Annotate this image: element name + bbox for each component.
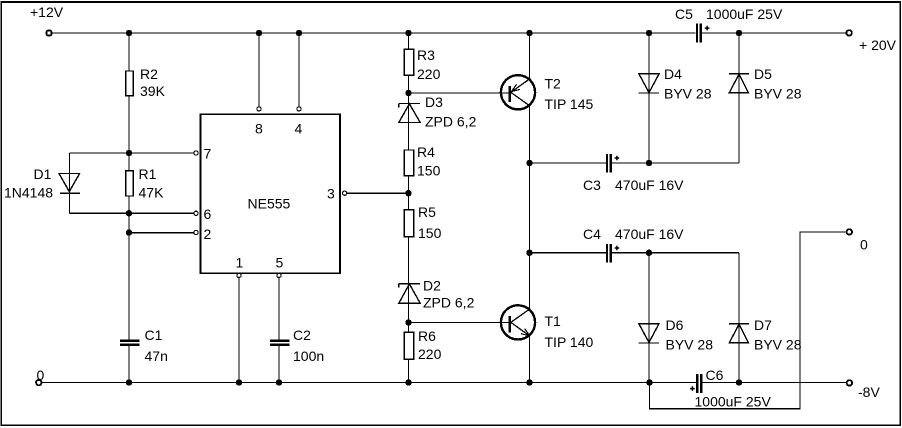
svg-text:150: 150	[417, 163, 441, 179]
diode D6	[639, 324, 659, 343]
pin 4 circle	[297, 107, 301, 111]
junction bottom rail x739	[736, 379, 742, 385]
diode D3 zener	[399, 104, 420, 123]
svg-text:47n: 47n	[145, 348, 168, 364]
terminal +20V	[846, 30, 851, 35]
wire 0-output branch	[650, 232, 846, 409]
wire D4 column	[648, 33, 650, 163]
svg-text:470uF 16V: 470uF 16V	[615, 226, 684, 242]
transistor T2 circle	[501, 75, 535, 109]
junction node pin3/R4/R5	[405, 190, 411, 196]
svg-text:ZPD 6,2: ZPD 6,2	[423, 295, 475, 311]
svg-text:D1: D1	[34, 166, 52, 182]
transistor T2 arrow (PNP)	[511, 84, 520, 91]
svg-text:+ 20V: + 20V	[859, 37, 897, 53]
transistor T1 circle	[501, 305, 535, 339]
svg-text:R4: R4	[417, 144, 435, 160]
wire T2 base row	[409, 92, 510, 94]
svg-text:C4: C4	[583, 226, 601, 242]
svg-text:R6: R6	[418, 328, 436, 344]
diode D5	[729, 74, 749, 93]
pin 2 circle	[194, 231, 198, 235]
svg-text:39K: 39K	[140, 83, 166, 99]
pin 8 circle	[257, 107, 261, 111]
resistor R3	[404, 49, 413, 75]
svg-text:3: 3	[327, 186, 335, 202]
junction bottom rail x529.5	[526, 379, 532, 385]
svg-text:1000uF 25V: 1000uF 25V	[706, 6, 783, 22]
pin 1 circle	[237, 273, 241, 277]
terminal 0 bottom left	[36, 380, 41, 385]
capacitor C6 plates	[697, 374, 701, 393]
wire pin8 column	[258, 33, 260, 107]
svg-text:100n: 100n	[293, 348, 324, 364]
transistor T1 arrow (NPN)	[521, 329, 530, 336]
wire D7 column	[738, 253, 740, 383]
junction pin6 row	[126, 210, 132, 216]
wire pin1 column	[238, 278, 240, 383]
junction bottom rail x649.5	[646, 379, 652, 385]
capacitor C1 plates	[120, 341, 139, 345]
svg-text:220: 220	[418, 346, 442, 362]
wire D1 branch vertical	[69, 153, 71, 213]
junction pin7 row	[126, 150, 132, 156]
junction pin2 row	[126, 229, 132, 235]
svg-text:D3: D3	[425, 94, 443, 110]
svg-text:R5: R5	[418, 204, 436, 220]
svg-text:R3: R3	[417, 47, 435, 63]
wire pin2 row	[129, 232, 194, 234]
op-amp/timer U1 NE555 box	[201, 114, 341, 273]
pin 3 circle	[343, 191, 347, 195]
svg-text:0: 0	[860, 237, 868, 253]
svg-text:1N4148: 1N4148	[4, 185, 53, 201]
svg-text:-8V: -8V	[858, 384, 880, 400]
terminal +12V	[46, 30, 51, 35]
svg-text:R2: R2	[140, 66, 158, 82]
resistor R4	[404, 150, 413, 176]
wire T1 base row	[409, 322, 510, 324]
svg-text:TIP 145: TIP 145	[545, 96, 594, 112]
svg-text:+12V: +12V	[30, 4, 64, 20]
wire pin6 row	[70, 212, 194, 214]
junction top rail x408.5	[405, 30, 411, 36]
wire pin7 row	[70, 152, 194, 154]
svg-text:NE555: NE555	[248, 196, 291, 212]
svg-text:D7: D7	[754, 317, 772, 333]
svg-text:T2: T2	[545, 76, 562, 92]
diode D2 zener	[399, 284, 420, 304]
junction top rail x649	[646, 30, 652, 36]
svg-text:BYV 28: BYV 28	[664, 86, 712, 102]
junction C3 row x529.5	[526, 160, 532, 166]
svg-text:150: 150	[418, 225, 442, 241]
junction bottom rail x408.5	[405, 379, 411, 385]
svg-text:1: 1	[236, 255, 244, 271]
transistor T1 emitter/collector	[500, 309, 530, 337]
capacitor C3 plus mark	[615, 156, 620, 161]
junction bottom rail x279	[276, 379, 282, 385]
junction node D2/T1 base	[405, 319, 411, 325]
svg-text:C2: C2	[293, 327, 311, 343]
svg-text:0: 0	[37, 367, 45, 383]
svg-text:TIP 140: TIP 140	[545, 334, 594, 350]
capacitor C4 plates	[607, 244, 611, 263]
junction top rail x739	[736, 30, 742, 36]
transistor T1 base bar	[509, 316, 511, 332]
pin 6 circle	[194, 211, 198, 215]
wire pin4 column	[298, 33, 300, 107]
diode D1	[59, 174, 80, 194]
svg-text:R1: R1	[139, 166, 157, 182]
wire left column x=129	[128, 33, 130, 383]
svg-text:220: 220	[417, 66, 441, 82]
svg-text:8: 8	[255, 121, 263, 137]
capacitor C5 plates	[697, 24, 701, 43]
svg-text:2: 2	[204, 226, 212, 242]
pin 7 circle	[194, 151, 198, 155]
pin 5 circle	[277, 273, 281, 277]
junction C3 row x649	[646, 160, 652, 166]
diode D4	[639, 74, 660, 93]
resistor R6	[404, 332, 413, 359]
svg-text:D5: D5	[754, 66, 772, 82]
resistor R2	[126, 71, 134, 96]
resistor R1	[126, 171, 134, 196]
svg-text:6: 6	[204, 206, 212, 222]
junction C4 row x529.5	[526, 250, 532, 256]
junction bottom rail x129	[126, 379, 132, 385]
capacitor C2 plates	[270, 341, 289, 345]
svg-text:D6: D6	[666, 317, 684, 333]
svg-text:ZPD 6,2: ZPD 6,2	[425, 114, 477, 130]
transistor T2 base bar	[509, 86, 511, 102]
diode D7	[729, 324, 749, 343]
wire C4 row	[530, 252, 740, 254]
junction node D3/T2 base	[405, 90, 411, 96]
junction top rail x129	[126, 30, 132, 36]
svg-text:7: 7	[204, 146, 212, 162]
junction bottom rail x239	[236, 379, 242, 385]
wire middle column x=408.5	[408, 33, 410, 383]
transistor T2 emitter/collector	[500, 78, 530, 106]
svg-text:470uF 16V: 470uF 16V	[615, 177, 684, 193]
junction top rail x529.5	[526, 30, 532, 36]
terminal 0 right	[847, 229, 852, 234]
wire C3 row	[530, 162, 740, 164]
wire pin5 column	[278, 278, 280, 383]
junction C4 row x649	[646, 250, 652, 256]
svg-text:BYV 28: BYV 28	[754, 86, 802, 102]
svg-text:4: 4	[295, 121, 303, 137]
wire top rail +12V	[53, 32, 846, 34]
svg-text:1000uF 25V: 1000uF 25V	[695, 394, 772, 410]
svg-text:D4: D4	[664, 66, 682, 82]
capacitor C4 plus mark	[615, 246, 620, 251]
svg-text:BYV 28: BYV 28	[666, 337, 714, 353]
terminal -8V	[847, 380, 852, 385]
resistor R5	[404, 210, 413, 237]
wire D5 column	[738, 33, 740, 163]
junction top rail x259	[256, 30, 262, 36]
wire D6 column	[648, 253, 650, 383]
svg-text:C3: C3	[583, 177, 601, 193]
svg-text:47K: 47K	[139, 185, 165, 201]
svg-text:BYV 28: BYV 28	[754, 337, 802, 353]
junction top rail x299	[296, 30, 302, 36]
svg-text:C1: C1	[145, 327, 163, 343]
wire pin3 row	[347, 192, 409, 194]
capacitor C5 plus mark	[705, 26, 710, 31]
svg-text:C5: C5	[675, 6, 693, 22]
svg-text:5: 5	[276, 255, 284, 271]
svg-text:C6: C6	[706, 367, 724, 383]
svg-text:T1: T1	[545, 313, 562, 329]
svg-text:D2: D2	[423, 278, 441, 294]
wire transistor column x=529.5	[529, 33, 531, 383]
capacitor C6 plus mark	[690, 386, 695, 391]
capacitor C3 plates	[607, 154, 611, 173]
wire bottom rail 0V	[42, 382, 846, 384]
